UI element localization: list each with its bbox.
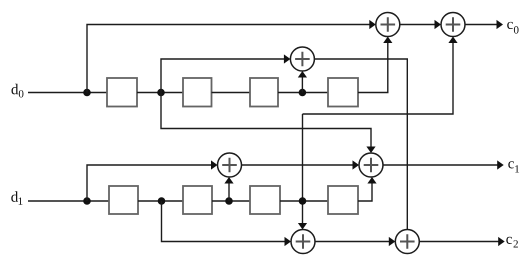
XOR adder U2 (c0 second) xyxy=(441,13,465,37)
output label c0 xyxy=(507,22,518,34)
wire U6 to U7 xyxy=(315,241,393,243)
wire box1 to box2 xyxy=(137,92,183,94)
node box7 output junction xyxy=(299,197,307,205)
wire d1 tap up into adder U4 left xyxy=(87,165,216,201)
shift register box 8 xyxy=(328,186,358,214)
node box3 output junction xyxy=(299,89,307,97)
wire d1 input xyxy=(28,200,109,202)
wire box3 tap up into adder U3 bottom xyxy=(301,75,303,93)
wire box5 tap down into adder U6 left xyxy=(162,201,290,242)
node d0 tap junction xyxy=(83,89,91,97)
input label d0 xyxy=(12,84,24,98)
output label c2 xyxy=(506,237,518,248)
wire box1 tap up into mid adder U3 xyxy=(161,59,288,93)
shift register box 5 xyxy=(109,186,138,214)
shift register box 4 xyxy=(328,78,358,107)
wire box8 output up into adder U5 bottom xyxy=(358,181,372,201)
shift register box 3 xyxy=(250,78,278,107)
node box5 output junction xyxy=(158,197,166,205)
wire box7 tap down into adder U6 top xyxy=(302,201,304,226)
shift register box 6 xyxy=(183,186,212,214)
wire U4 to U5 xyxy=(242,164,358,166)
shift register box 1 xyxy=(107,78,137,107)
wire d0 tap up and across top into adder U1 xyxy=(87,25,374,93)
wire U7 output to c2 xyxy=(419,241,499,243)
node box6 output junction xyxy=(225,197,233,205)
wire U2 output to c0 xyxy=(465,24,497,26)
wire U1 to U2 xyxy=(400,24,439,26)
XOR adder U3 (middle) xyxy=(290,47,314,71)
wire box1 tap down to adder U5 top xyxy=(161,93,371,149)
wire box4 output up into adder U1 bottom xyxy=(358,41,388,93)
XOR adder U4 (c1 first) xyxy=(218,153,242,177)
shift register box 7 xyxy=(250,186,280,214)
output label c1 xyxy=(508,161,519,172)
XOR adder U1 (c0 first) xyxy=(376,13,400,37)
wire box7 tap up across to adder U2 bottom xyxy=(303,41,454,115)
wire box3 to box4 xyxy=(278,92,328,94)
wire U3 output down into adder U7 top xyxy=(314,59,407,230)
input label d1 xyxy=(11,191,22,204)
XOR adder U6 (c2 first) xyxy=(291,230,315,254)
wire U5 output to c1 xyxy=(383,164,498,166)
wire box7 to box8 xyxy=(280,200,328,202)
XOR adder U5 (c1 second) xyxy=(359,153,383,177)
XOR adder U7 (c2 second) xyxy=(395,230,419,254)
wire box6 tap up into adder U4 bottom xyxy=(228,181,230,201)
wire box7 tap vertical to bottom row junction xyxy=(302,114,304,201)
shift register box 2 xyxy=(183,78,212,107)
node d1 tap junction xyxy=(83,197,91,205)
wire d0 input xyxy=(28,92,107,94)
wire box2 to box3 xyxy=(212,92,251,94)
node box1 output junction xyxy=(157,89,165,97)
wire box5 to box6 xyxy=(138,200,183,202)
wire box6 to box7 xyxy=(212,200,250,202)
